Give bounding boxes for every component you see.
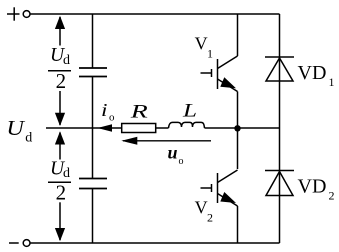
- label Ud/2 upper: [48, 45, 71, 93]
- svg-text:1: 1: [207, 46, 213, 60]
- capacitor C1: [79, 68, 107, 77]
- wire switch branch top: [237, 14, 239, 56]
- svg-text:2: 2: [207, 210, 213, 224]
- svg-text:R: R: [129, 102, 148, 123]
- diode VD2: [265, 171, 294, 196]
- wire diode branch: [279, 14, 281, 243]
- wire switch branch middle: [237, 92, 239, 170]
- wire bottom bus: [30, 242, 280, 244]
- wire capacitor branch lower: [92, 189, 94, 243]
- arrow Ud/2 upper measurement: [55, 16, 65, 126]
- wire capacitor branch middle: [92, 77, 94, 178]
- svg-text:o: o: [179, 156, 184, 167]
- svg-text:d: d: [63, 166, 70, 181]
- wire top bus: [30, 13, 280, 15]
- wire output mid right: [205, 127, 280, 129]
- wire output mid left: [46, 127, 169, 129]
- svg-text:L: L: [182, 101, 197, 122]
- svg-text:d: d: [63, 53, 70, 68]
- svg-text:VD: VD: [298, 62, 327, 84]
- svg-text:U: U: [6, 116, 25, 140]
- svg-text:V: V: [195, 198, 208, 218]
- svg-text:2: 2: [329, 189, 335, 203]
- svg-text:2: 2: [56, 181, 67, 205]
- wire capacitor branch upper: [92, 14, 94, 68]
- capacitor C2: [79, 179, 107, 189]
- svg-text:i: i: [101, 100, 108, 120]
- svg-text:V: V: [195, 33, 208, 53]
- transistor V2: [201, 170, 238, 206]
- resistor R: [122, 124, 156, 133]
- inductor L: [169, 122, 205, 128]
- arrow Ud/2 lower measurement: [55, 131, 65, 241]
- node junction output: [234, 125, 240, 131]
- wire switch branch bottom: [237, 206, 239, 243]
- svg-text:d: d: [25, 130, 32, 145]
- terminal -: [9, 240, 30, 247]
- svg-text:2: 2: [56, 69, 67, 93]
- arrow i_o: [97, 124, 112, 132]
- svg-text:u: u: [168, 143, 178, 163]
- diode VD1: [265, 57, 294, 81]
- arrow u_o: [121, 137, 211, 145]
- transistor V1: [201, 56, 238, 92]
- label Ud/2 lower: [48, 158, 71, 204]
- terminal +: [7, 7, 30, 20]
- svg-text:1: 1: [329, 75, 335, 89]
- svg-text:o: o: [109, 112, 115, 124]
- svg-text:VD: VD: [298, 175, 327, 197]
